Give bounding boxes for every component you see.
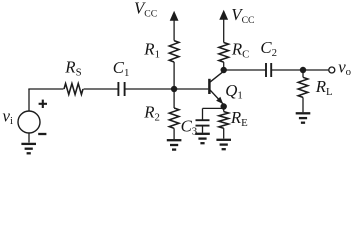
wire RC to collector node: [223, 62, 225, 70]
ground of source vi: [21, 143, 36, 145]
wire input line to RS: [28, 88, 63, 90]
svg-text:VCC: VCC: [134, 0, 157, 19]
wire RL to ground: [302, 97, 304, 112]
capacitor C3: [196, 119, 210, 121]
wire C1 to base of Q1: [125, 88, 209, 90]
VCC supply arrow left: [170, 11, 179, 21]
wire output node to vo terminal: [303, 69, 329, 71]
svg-text:Q1: Q1: [225, 81, 243, 102]
resistor R1: [169, 41, 179, 62]
svg-text:R2: R2: [143, 102, 160, 123]
svg-text:RE: RE: [230, 108, 248, 129]
resistor RE: [219, 112, 229, 129]
wire down to C3 top plate: [202, 108, 204, 120]
ground of RL: [296, 112, 311, 114]
node collector junction: [221, 67, 227, 73]
plus sign of vi: [39, 103, 47, 105]
wire emitter node to C3: [203, 107, 224, 109]
wire emitter node to RE: [223, 107, 225, 112]
capacitor C2: [265, 63, 267, 77]
node output junction: [300, 67, 306, 73]
svg-text:vo: vo: [338, 58, 351, 79]
wire C3 bottom plate to ground: [202, 126, 204, 133]
minus sign of vi: [38, 133, 46, 135]
node emitter junction: [221, 103, 227, 109]
resistor RS: [64, 84, 83, 95]
svg-text:C2: C2: [260, 38, 277, 59]
wire VCC arrow to RC: [223, 18, 225, 43]
wire source top to input line: [28, 89, 30, 111]
transistor Q1 collector lead: [209, 71, 223, 82]
transistor Q1 base bar: [208, 79, 211, 94]
svg-text:VCC: VCC: [231, 5, 254, 26]
resistor R2: [169, 108, 179, 128]
svg-text:C1: C1: [113, 58, 130, 79]
ground of RE: [216, 139, 231, 141]
capacitor C1: [117, 82, 119, 96]
VCC supply arrow right: [219, 10, 228, 20]
wire RS to C1: [84, 88, 119, 90]
wire source bottom to ground: [28, 133, 30, 143]
resistor RL: [298, 77, 308, 97]
wire base node to R2: [173, 89, 175, 108]
wire collector node to C2: [224, 69, 266, 71]
resistor RC: [219, 43, 229, 63]
node base divider junction: [171, 86, 177, 92]
ground of R2: [167, 139, 182, 141]
transistor Q1 emitter lead: [209, 89, 223, 104]
svg-text:C3: C3: [181, 116, 198, 137]
ground of C3: [195, 133, 210, 135]
wire R1 to base node: [173, 62, 175, 89]
voltage source vi: [18, 111, 40, 133]
output terminal vo: [329, 67, 335, 73]
transistor Q1 emitter arrowhead: [216, 97, 223, 104]
wire output node to RL: [302, 70, 304, 77]
wire R2 to ground: [173, 128, 175, 139]
svg-text:R1: R1: [143, 39, 160, 60]
svg-text:RC: RC: [231, 39, 249, 60]
wire RE to ground: [223, 128, 225, 138]
wire C2 to output node: [271, 69, 303, 71]
wire VCC arrow to R1: [173, 19, 175, 41]
svg-text:vi: vi: [3, 106, 13, 127]
svg-text:RL: RL: [315, 77, 333, 98]
svg-text:RS: RS: [64, 57, 81, 78]
